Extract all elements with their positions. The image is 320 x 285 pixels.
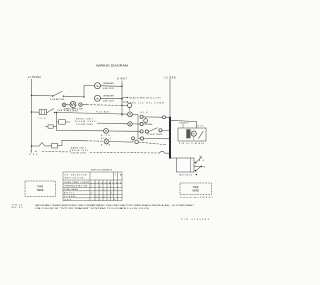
- svg-text:TIME BAKE: TIME BAKE: [64, 188, 79, 191]
- svg-text:1950W 208V: 1950W 208V: [71, 152, 87, 154]
- svg-text:B-CR: B-CR: [101, 145, 111, 147]
- wire row F left: [32, 145, 40, 147]
- wire row B left: [84, 85, 94, 87]
- terminal T12: [163, 116, 166, 119]
- relay K1: [59, 120, 66, 125]
- wire row 138: [138, 138, 140, 140]
- terminal T10: [132, 137, 135, 140]
- timer coil block: [186, 129, 190, 138]
- motor M: [191, 131, 196, 136]
- svg-text:T M: T M: [115, 174, 122, 176]
- node junction A/N: [121, 98, 123, 100]
- svg-text:x: x: [114, 199, 115, 201]
- wire row A right: [101, 97, 123, 99]
- table texts: [64, 174, 122, 201]
- lamp LP1: [95, 83, 101, 89]
- svg-text:OVEN LIGHT: OVEN LIGHT: [103, 83, 115, 85]
- node junction row/L2: [169, 138, 171, 140]
- table: [63, 172, 122, 201]
- switch SW3: [145, 130, 148, 133]
- wire connector vertical: [137, 115, 139, 139]
- wire row D left: [57, 121, 59, 123]
- svg-text:P-N OL P-M BLK: P-N OL P-M BLK: [179, 143, 205, 145]
- svg-text:W: W: [204, 166, 206, 168]
- svg-text:HERE: HERE: [193, 191, 200, 193]
- svg-text:L1 TM BLK: L1 TM BLK: [28, 77, 41, 79]
- svg-text:THERMOSTAT SW: THERMOSTAT SW: [64, 185, 87, 188]
- wire: [45, 145, 51, 147]
- wire row E: [57, 130, 104, 132]
- svg-text:RED: RED: [30, 154, 39, 156]
- svg-text:BLK: BLK: [198, 125, 205, 127]
- svg-text:x: x: [104, 196, 105, 198]
- hook: [160, 151, 165, 153]
- terminal T6: [140, 122, 143, 125]
- svg-text:OVEN TEMP: OVEN TEMP: [148, 134, 164, 136]
- wire tag stub 1: [123, 97, 127, 99]
- switch SW4 peak: [39, 143, 45, 146]
- lamp LP4: [144, 119, 148, 123]
- wire: [58, 145, 62, 147]
- terminal T4: [140, 115, 143, 118]
- wire row A mid: [63, 95, 84, 98]
- svg-text:x: x: [104, 189, 105, 191]
- svg-text:CLEAN: CLEAN: [64, 195, 76, 198]
- wire: [109, 141, 133, 144]
- svg-text:B-CR: B-CR: [101, 135, 111, 137]
- timer box U1: [178, 128, 206, 141]
- svg-text:BROIL: BROIL: [64, 193, 75, 195]
- terminal T11: [104, 139, 109, 144]
- tape box left: [25, 181, 56, 197]
- wire right bus L2 thick lower: [169, 118, 171, 159]
- svg-text:x: x: [111, 193, 112, 195]
- svg-text:40W 120V: 40W 120V: [103, 101, 115, 103]
- wire: [166, 116, 171, 118]
- svg-text:40W 120V: 40W 120V: [103, 88, 115, 90]
- lamp LP3 on N bus: [122, 104, 127, 106]
- switch SW2: [47, 111, 48, 113]
- terminal T8: [140, 130, 143, 133]
- svg-text:IMPORTANT: WHEN SERVICING THE: IMPORTANT: WHEN SERVICING THE COMPARTMEN…: [35, 204, 195, 207]
- terminal T9: [140, 137, 143, 140]
- wire dashed to N bus: [87, 104, 123, 107]
- wire row C right: [143, 116, 162, 118]
- wire dashed to bus: [138, 142, 166, 145]
- wire dashed: [86, 140, 104, 142]
- svg-text:P-15 BLK: P-15 BLK: [96, 111, 110, 113]
- svg-text:OVEN LIGHT: OVEN LIGHT: [103, 96, 115, 98]
- wire tag stub 2: [123, 101, 127, 103]
- switch SW1: [52, 95, 53, 96]
- svg-text:BLK: BLK: [141, 112, 149, 114]
- wire bus to lock box: [170, 157, 177, 159]
- wire branch vertical: [83, 86, 85, 97]
- svg-text:MOTOR DL: MOTOR DL: [180, 175, 194, 177]
- wire: [66, 104, 70, 106]
- wire row A left: [32, 94, 53, 97]
- wire row D: [65, 121, 70, 123]
- svg-text:SWITCH POS.: SWITCH POS.: [65, 178, 85, 180]
- svg-text:x: x: [100, 186, 101, 188]
- svg-text:OFF: OFF: [64, 199, 72, 201]
- leader lines: [182, 124, 184, 128]
- svg-text:x: x: [91, 186, 92, 188]
- svg-text:OV. SELECTOR: OV. SELECTOR: [65, 174, 88, 176]
- wire left bus L1: [31, 79, 33, 153]
- svg-text:BLK Y: BLK Y: [101, 138, 112, 140]
- wire row C: [55, 112, 122, 114]
- svg-text:TAPE: TAPE: [37, 186, 43, 189]
- wire right bus L2: [169, 79, 171, 118]
- svg-text:BLACK WHITE (L1-OV): BLACK WHITE (L1-OV): [130, 97, 161, 100]
- contact C1: [195, 162, 197, 164]
- svg-text:2250W 208V: 2250W 208V: [76, 124, 94, 126]
- wire row C left: [32, 111, 39, 113]
- svg-text:OVEN TEMP CONTR: OVEN TEMP CONTR: [64, 182, 90, 184]
- svg-text:x: x: [96, 196, 97, 198]
- wire: [82, 104, 86, 106]
- terminal T7: [104, 129, 109, 134]
- node junction C/N: [121, 113, 123, 115]
- terminal T5: [128, 122, 132, 126]
- wire row E left vertical: [56, 122, 58, 131]
- svg-text:N WHT: N WHT: [117, 79, 128, 81]
- terminal T3: [122, 113, 128, 115]
- svg-text:P 1/E BLK SW: P 1/E BLK SW: [50, 99, 64, 101]
- coil L1: [135, 140, 139, 144]
- wire row B right: [101, 85, 123, 88]
- node junction C left: [31, 111, 33, 113]
- motor M1 oven lamp: [70, 102, 76, 108]
- svg-text:BK: BK: [199, 160, 205, 162]
- svg-text:WIRING DIAGRAM: WIRING DIAGRAM: [96, 64, 129, 68]
- relay K2: [52, 143, 58, 148]
- svg-text:TAPE: TAPE: [193, 186, 199, 189]
- svg-text:15A BLK: 15A BLK: [57, 109, 70, 112]
- svg-text:M: M: [193, 133, 195, 136]
- node junction F left: [31, 145, 32, 146]
- node branch D: [56, 112, 57, 113]
- contact C2: [194, 165, 201, 167]
- terminal T2: [79, 103, 83, 107]
- svg-text:ON COLOR IS "TYP OR TRACER" SY: ON COLOR IS "TYP OR TRACER" SYSTEM. TO L…: [35, 207, 150, 210]
- wire row G dashed: [42, 151, 71, 153]
- breaker TOD: [39, 110, 46, 115]
- wire to timer cluster: [170, 120, 197, 121]
- svg-text:x: x: [91, 193, 92, 195]
- lock box U2: [177, 158, 195, 172]
- svg-text:P/N 3160884: P/N 3160884: [181, 219, 210, 221]
- tape box right: [180, 183, 212, 195]
- lamp LP2: [95, 95, 101, 101]
- svg-text:Technical data 316 B W L: Technical data 316 B W L: [180, 196, 213, 199]
- svg-text:TOD: TOD: [38, 118, 47, 120]
- terminal T1: [62, 103, 66, 107]
- svg-text:x: x: [114, 189, 115, 191]
- svg-text:TM BLK: TM BLK: [179, 122, 189, 124]
- svg-text:RED (L2-OV) CONN: RED (L2-OV) CONN: [130, 102, 164, 104]
- fuse F1 stub: [45, 126, 48, 128]
- wire mid bus N: [121, 81, 123, 116]
- svg-text:WD-62: WD-62: [12, 207, 24, 209]
- svg-text:SWITCH CONTACTS: SWITCH CONTACTS: [91, 168, 113, 171]
- svg-text:HERE: HERE: [37, 189, 44, 192]
- switch inside: [199, 131, 204, 138]
- svg-text:1 2 3 4 5 6 7 8 9: 1 2 3 4 5 6 7 8 9: [91, 182, 121, 184]
